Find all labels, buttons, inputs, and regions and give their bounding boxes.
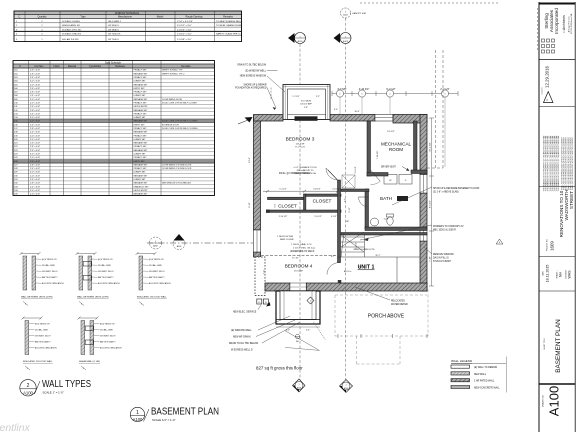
svg-text:103 1/2" AFF: 103 1/2" AFF [300,103,312,106]
svg-text:12.29.2016: 12.29.2016 [545,65,550,88]
svg-text:Remarks: Remarks [181,65,191,68]
svg-text:2: 2 [27,383,30,389]
svg-text:SOLID CORE 1 HR W/ SELF CLOSIN: SOLID CORE 1 HR W/ SELF CLOSING [162,128,198,130]
stair right stringer [364,233,366,258]
svg-text:DRAIN TO DL/TBC BELOW: DRAIN TO DL/TBC BELOW [237,63,266,66]
svg-text:DOUBLE 2 HA. NG: DOUBLE 2 HA. NG [62,33,81,36]
well ladder marks [283,291,285,320]
svg-text:WATER METER: WATER METER [391,303,408,306]
svg-text:Door Schedule: Door Schedule [105,61,121,64]
bath door swing [359,197,369,207]
wall detail 1 [20,252,65,306]
svg-text:(E) 4" BRICK OR: (E) 4" BRICK OR [149,259,164,261]
svg-text:rentlinx: rentlinx [0,422,31,432]
svg-text:DUMMY SET: DUMMY SET [134,95,147,97]
svg-text:ACOUSTIC INSULATION: ACOUSTIC INSULATION [100,347,122,350]
svg-text:SEE WINDOW 1 IN SCHEDULE: SEE WINDOW 1 IN SCHEDULE [162,183,192,185]
svg-text:KEYED ENTRY: KEYED ENTRY [134,190,149,192]
bath dark niche [397,196,408,201]
svg-text:2'-8" x 6'-8": 2'-8" x 6'-8" [30,183,40,185]
svg-text:2'-6" x 6'-8": 2'-6" x 6'-8" [30,106,40,108]
svg-text:ACOUSTIC INSULATION: ACOUSTIC INSULATION [35,347,57,350]
svg-text:CLOSET: CLOSET [313,199,332,204]
deck edge dashed line over bedroom4 [261,255,337,257]
svg-text:5/8 GWB T. BLD F.: 5/8 GWB T. BLD F. [149,271,165,273]
svg-text:7 1/8 IN. CAVA. 2 CK: 7 1/8 IN. CAVA. 2 CK [291,243,312,246]
svg-text:BASEMENT PLAN: BASEMENT PLAN [151,407,219,418]
svg-text:FOUNDATION AS REQUIRED: FOUNDATION AS REQUIRED [235,87,267,90]
svg-text:W.: W. [389,180,392,182]
svg-text:PRIVACY SET: PRIVACY SET [134,145,148,148]
south wall west segment [265,283,290,291]
svg-text:3'-0" x 6'-8": 3'-0" x 6'-8" [30,81,40,83]
svg-text:2'-10 1/2": 2'-10 1/2" [279,216,288,218]
south wall east segment [306,283,427,291]
svg-text:Hardware: Hardware [115,65,126,68]
svg-text:3'-6 1/2": 3'-6 1/2" [355,166,357,174]
porch above dashed outline [335,290,428,365]
svg-text:DRYER VENT: DRYER VENT [381,167,396,169]
svg-text:3'-0" x 6'-8": 3'-0" x 6'-8" [30,99,40,101]
svg-text:10: 10 [265,302,267,304]
svg-text:UP: UP [346,221,350,223]
svg-text:BATTS IN CAVITY: BATTS IN CAVITY [100,341,116,344]
unit1 door swing [327,263,339,275]
svg-text:DAS IN FILL IS: DAS IN FILL IS [433,257,449,260]
svg-text:3'-0 1/2" x 3'-0": 3'-0 1/2" x 3'-0" [177,25,192,27]
svg-text:WALL TYPES: WALL TYPES [42,379,91,390]
svg-text:(3) 1'-6" x ABOVE SLAB): (3) 1'-6" x ABOVE SLAB) [433,191,459,194]
svg-text:5'-5 1/2": 5'-5 1/2" [314,216,322,218]
svg-text:ACOUSTIC INSULATION: ACOUSTIC INSULATION [42,282,64,285]
svg-text:PRIVACY SET: PRIVACY SET [134,167,148,170]
section marker top A [288,33,306,44]
svg-text:2'-6" x 6'-8": 2'-6" x 6'-8" [30,143,40,145]
section marker top B [334,33,352,44]
svg-text:2'-8" x 6'-8": 2'-8" x 6'-8" [30,128,40,130]
svg-text:Finish: Finish [53,66,60,68]
svg-text:THIS DRAWING IS THE PROPERTY O: THIS DRAWING IS THE PROPERTY OF THE ARCH… [557,135,560,192]
bath fixtures: toilet [387,217,393,225]
svg-text:5/8 GWB T. BLD F.: 5/8 GWB T. BLD F. [98,271,114,273]
svg-text:Remarks: Remarks [223,16,233,19]
svg-text:2'-4" x 6'-8": 2'-4" x 6'-8" [30,113,40,115]
svg-text:STREET: STREET [569,191,574,209]
svg-text:PRIVACY SET: PRIVACY SET [134,156,148,159]
svg-text:PASSAGE SET: PASSAGE SET [134,182,149,185]
svg-text:(E) WALL TO REMAIN: (E) WALL TO REMAIN [474,366,497,369]
svg-text:10'-1 3/4": 10'-1 3/4" [430,142,432,151]
svg-text:Material: Material [68,65,77,68]
svg-text:REMOVE WINDOW: REMOVE WINDOW [433,254,455,256]
closet door jamb [266,210,270,213]
svg-text:SOLID CORE 1 HR W/ SELF CLOSER: SOLID CORE 1 HR W/ SELF CLOSER [162,103,197,105]
wall legend [451,357,506,393]
svg-text:Unit Size: Unit Size [34,65,44,68]
south egress well [276,291,320,324]
leaders from well to unit tags [314,322,326,340]
svg-text:BATH: BATH [380,196,392,201]
mech room door swing [371,170,381,181]
svg-text:UNDERSIDE OF DECK: UNDERSIDE OF DECK [290,251,315,253]
section marker bottom B [340,380,353,393]
svg-text:PRIVACY SET: PRIVACY SET [134,76,148,79]
svg-text:617.555.0100 Boston MA: 617.555.0100 Boston MA [570,13,573,34]
svg-text:BEDROOM 4: BEDROOM 4 [285,264,313,269]
svg-text:revisions: revisions [542,87,544,94]
svg-text:BASEMENT PLAN: BASEMENT PLAN [555,319,562,373]
east wall window 1 [420,175,427,194]
bay egress window (dark) [295,116,318,121]
closet divider wall [304,194,306,212]
svg-text:VERIFY IN FIELD TYP.: VERIFY IN FIELD TYP. [162,70,183,72]
svg-text:6'-11": 6'-11" [249,202,251,208]
svg-text:14'-1/2": 14'-1/2" [387,131,395,133]
svg-text:1609: 1609 [550,241,555,251]
svg-text:WINDOW SCHEDULE: WINDOW SCHEDULE [115,12,140,15]
svg-text:C.: C. [18,16,21,19]
svg-text:(E) 4" BRICK OR: (E) 4" BRICK OR [100,324,115,326]
svg-text:2X4 BA...GWB: 2X4 BA...GWB [42,264,55,267]
svg-text:DUMMY SET: DUMMY SET [134,117,147,119]
svg-text:NEW COVER: NEW COVER [280,239,294,241]
svg-text:SHEET TITLE: SHEET TITLE [544,338,546,350]
svg-text:A103: A103 [344,387,348,390]
svg-text:2'-4" x 6'-8": 2'-4" x 6'-8" [30,95,40,97]
deck above dashed outline [360,2,500,4]
svg-text:5x1P: 5x1P [384,219,389,221]
svg-text:(E) WINDOW WELL: (E) WINDOW WELL [231,330,252,332]
svg-text:157.4 SF: 157.4 SF [294,271,304,273]
right closet top wall [305,194,341,196]
wall types title [20,379,91,396]
svg-text:ROOM: ROOM [389,147,403,152]
svg-text:8'-5 1/2": 8'-5 1/2" [430,200,432,208]
chimney infill X [342,175,355,188]
svg-text:117.3 SF: 117.3 SF [296,144,305,146]
svg-text:DATE: DATE [542,270,545,275]
svg-text:□ Architects: □ Architects [562,15,566,33]
svg-text:ACOUSTIC INSULATION: ACOUSTIC INSULATION [149,282,171,285]
svg-text:(E) WINDOW WELL: (E) WINDOW WELL [245,70,266,72]
svg-text:INFILL @ FORMER CHIMNEY: INFILL @ FORMER CHIMNEY [279,173,311,175]
svg-text:2'-8" x 6'-8": 2'-8" x 6'-8" [30,164,40,166]
svg-text:VERIFY IN FIELD TYP. 2: VERIFY IN FIELD TYP. 2 [162,73,185,75]
bath north wall [341,189,369,192]
window tag circles [336,90,343,97]
svg-text:DUMMY SET: DUMMY SET [134,81,147,83]
svg-text:2'-0": 2'-0" [360,265,362,269]
top dimension line [332,93,458,95]
svg-text:A200: A200 [153,245,157,248]
svg-text:PASSAGE SET: PASSAGE SET [134,72,149,75]
svg-text:Incorporated: Incorporated [554,8,559,34]
bath west wall [365,189,369,229]
svg-text:2'-4" x 6'-8": 2'-4" x 6'-8" [30,77,40,79]
svg-text:PASSAGE SET: PASSAGE SET [134,163,149,166]
svg-text:DEADBOLT SET: DEADBOLT SET [134,185,150,188]
unit1 hall line [338,256,421,258]
west wall window [254,230,261,252]
svg-text:2'-8" x 6'-8": 2'-8" x 6'-8" [30,73,40,75]
svg-text:INSULATED 2X6 STUD WALL: INSULATED 2X6 STUD WALL [137,296,167,299]
right dimension chain [431,118,433,286]
svg-text:SHORE UP & REPAIR: SHORE UP & REPAIR [243,83,266,86]
svg-text:W EGRESS WELL D: W EGRESS WELL D [231,350,253,352]
svg-text:5/8 GWB T. BLD F.: 5/8 GWB T. BLD F. [42,271,58,273]
svg-text:DOUBLE 2 HUNG: DOUBLE 2 HUNG [62,21,80,23]
svg-text:PROJECT NO.: PROJECT NO. [547,238,549,251]
svg-text:WINDERS TO COMFORY XV: WINDERS TO COMFORY XV [433,226,464,228]
canopy tag dashed circle [341,8,351,18]
floor plan group [147,3,538,393]
laundry dryer box [399,175,412,185]
svg-text:2X4 BA...GWB: 2X4 BA...GWB [149,264,162,267]
svg-text:2'-4" x 6'-8": 2'-4" x 6'-8" [30,132,40,134]
svg-text:20'-7": 20'-7" [375,255,380,257]
svg-text:334 x ABOVE TO: 334 x ABOVE TO [297,169,314,172]
svg-text:NEW WALL: NEW WALL [474,373,487,376]
svg-text:2'-0" x 6'-8": 2'-0" x 6'-8" [30,139,40,141]
svg-text:2'-4" x 6'-8": 2'-4" x 6'-8" [30,150,40,152]
svg-text:A100: A100 [133,417,143,422]
svg-text:1: 1 [310,301,311,303]
svg-text:ENTRY SET: ENTRY SET [134,124,146,126]
arrow into west wall [245,117,253,123]
svg-text:Manufacturer: Manufacturer [118,16,132,19]
svg-text:1'-7 1/2": 1'-7 1/2" [292,96,300,98]
svg-text:2X4 BA...GWB: 2X4 BA...GWB [98,264,111,267]
north bay window well [283,85,330,120]
svg-text:5/8 GWB T. BLD F.: 5/8 GWB T. BLD F. [35,336,51,338]
svg-text:PASSAGE SET: PASSAGE SET [134,83,149,86]
central vertical wall [338,180,341,263]
well dims [276,326,320,328]
svg-text:PASSAGE SET: PASSAGE SET [134,193,149,196]
svg-text:WALL BETWEEN UNITS (2 HR): WALL BETWEEN UNITS (2 HR) [21,296,53,299]
wall detail 2 [76,252,121,306]
svg-text:(E) 4" BRICK OR: (E) 4" BRICK OR [42,259,57,261]
svg-text:PORCH ABOVE: PORCH ABOVE [368,314,405,320]
svg-text:BATTS IN CAVITY: BATTS IN CAVITY [98,276,114,279]
svg-text:EXTERIOR DOOR: EXTERIOR DOOR [162,124,179,126]
laundry washer box [384,175,397,185]
svg-text:13'-6": 13'-6" [249,157,251,163]
svg-text:ENTRY SET: ENTRY SET [134,161,146,163]
slope triangle [496,239,503,244]
svg-text:A100: A100 [23,391,33,396]
svg-text:BATTS IN CAVITY: BATTS IN CAVITY [42,276,58,279]
svg-text:SHOR UP & REFRAME BASEMENT FLO: SHOR UP & REFRAME BASEMENT FLOOR [433,187,480,190]
svg-text:2'-4" x 6'-8": 2'-4" x 6'-8" [30,186,40,188]
svg-text:PASSAGE SET: PASSAGE SET [134,98,149,101]
svg-text:2'-8" x 6'-8": 2'-8" x 6'-8" [30,146,40,148]
closet south wall [270,210,342,212]
svg-text:JW 3030 S: JW 3030 S [108,25,119,27]
svg-text:PRIVACY SET: PRIVACY SET [134,91,148,94]
svg-text:16'-8": 16'-8" [354,111,359,113]
svg-text:INSULATED 2X4 STUD WALL: INSULATED 2X4 STUD WALL [23,360,53,363]
bath south wall [365,227,427,231]
svg-text:1 DECK W/ DIM: 1 DECK W/ DIM [277,236,293,238]
svg-text:5'-1 1/2": 5'-1 1/2" [279,188,287,190]
svg-text:RELOCATED: RELOCATED [391,300,405,303]
svg-text:STUCCO FINISH: STUCCO FINISH [433,261,451,263]
svg-text:2'-6" x 6'-8": 2'-6" x 6'-8" [30,161,40,163]
svg-text:2X4 BA...GWB: 2X4 BA...GWB [35,329,48,332]
svg-text:4'-1/2": 4'-1/2" [331,216,337,218]
svg-text:BATTS IN CAVITY: BATTS IN CAVITY [35,341,51,344]
south wall door opening [290,283,306,291]
svg-text:3'-4": 3'-4" [334,109,338,111]
svg-text:2'-0" x 6'-8": 2'-0" x 6'-8" [30,157,40,159]
svg-text:PRIVACY SET: PRIVACY SET [134,69,148,72]
svg-text:NEW WF DRAIN: NEW WF DRAIN [233,336,251,339]
svg-text:(E) 4" BRICK OR: (E) 4" BRICK OR [35,324,50,326]
west foundation wall [254,116,261,230]
svg-text:PRIVACY SET: PRIVACY SET [134,134,148,137]
svg-text:WALL BETWEEN UNITS (2 HR): WALL BETWEEN UNITS (2 HR) [77,296,109,299]
wall bedroom3 / left closet top [268,197,306,199]
svg-text:ACOUSTIC INSULATION: ACOUSTIC INSULATION [98,282,120,285]
svg-text:WALL LEGEND: WALL LEGEND [451,359,473,363]
witness lines from dim to wall [339,97,341,114]
svg-text:5'-8 1/2": 5'-8 1/2" [313,188,321,190]
area drain [295,334,299,338]
svg-text:3'-4": 3'-4" [306,330,310,332]
svg-text:WAS: WAS [568,270,572,279]
svg-text:2 HR RATED WALL: 2 HR RATED WALL [474,380,495,383]
svg-text:3'-0" x 6'-8": 3'-0" x 6'-8" [30,154,40,156]
svg-text:JW 7040 S: JW 7040 S [108,39,119,41]
stair winders [341,232,364,257]
svg-text:DOUBLE 4 HG. NO: DOUBLE 4 HG. NO [62,29,82,31]
svg-text:2'-0" x 6'-8": 2'-0" x 6'-8" [30,194,40,196]
svg-text:PASSAGE SET: PASSAGE SET [134,131,149,134]
svg-text:2'-4" x 6'-8": 2'-4" x 6'-8" [30,168,40,170]
svg-text:(E) 4" BRICK OR: (E) 4" BRICK OR [98,259,113,261]
east foundation wall [420,115,427,175]
svg-text:3'-0" x 6'-8": 3'-0" x 6'-8" [30,117,40,119]
svg-text:JW 2846 S: JW 2846 S [108,29,119,31]
svg-text:17'-10": 17'-10" [292,258,299,260]
mech room west wall [367,121,371,176]
svg-text:SINGLE AWN. NO: SINGLE AWN. NO [62,24,80,27]
svg-text:2'-8": 2'-8" [304,107,308,109]
svg-text:Rough Opening: Rough Opening [186,16,203,19]
svg-text:SAFETY GLASS PER CODE: SAFETY GLASS PER CODE [216,33,245,36]
section line A [299,44,301,84]
title block [539,2,576,432]
svg-text:2X4 BA...GWB: 2X4 BA...GWB [100,329,113,332]
svg-text:1/2 HR RATED 1 W SIDE DOOR: 1/2 HR RATED 1 W SIDE DOOR [162,167,192,170]
svg-text:NEW ELEC. SERVICE: NEW ELEC. SERVICE [233,312,257,314]
north wall center segment [330,115,375,122]
svg-text:MECHANICAL: MECHANICAL [381,142,412,147]
door tag by well [307,297,314,304]
svg-text:DRAWING NO.: DRAWING NO. [542,394,545,407]
svg-text:DUMMY SET: DUMMY SET [134,179,147,181]
elevation sight line [147,242,253,244]
hall south wall / unit1 north [341,233,427,236]
bedroom3 door swing [326,168,338,180]
svg-text:DRAIN TO DLI TBC BELOW: DRAIN TO DLI TBC BELOW [229,342,259,345]
svg-text:5/8 GWB T. BLD F.: 5/8 GWB T. BLD F. [100,336,116,338]
door schedule table [13,61,215,196]
svg-text:2'-0" x 6'-8": 2'-0" x 6'-8" [30,84,40,86]
svg-text:7'-10 1/2": 7'-10 1/2" [377,150,379,159]
svg-text:2'-2": 2'-2" [316,96,320,98]
svg-text:2'-6" x 6'-8": 2'-6" x 6'-8" [30,124,40,126]
north wall west segment [254,115,284,122]
svg-text:SCALE 1/4" = 1'-0": SCALE 1/4" = 1'-0" [152,418,176,422]
svg-text:W/N/COLUMN 6 FTS: W/N/COLUMN 6 FTS [354,249,375,251]
svg-text:2'-0" x 6'-8": 2'-0" x 6'-8" [30,175,40,177]
north wall window opening [375,115,393,122]
svg-text:2'-6" x 6'-8": 2'-6" x 6'-8" [30,70,40,72]
svg-text:CANOPY SIM: CANOPY SIM [352,12,366,15]
svg-text:10: 10 [258,302,260,304]
svg-text:2'-8" x 6'-8": 2'-8" x 6'-8" [30,92,40,94]
north wall east segment (mech room) [393,115,427,124]
svg-text:PASSAGE SET: PASSAGE SET [134,120,149,123]
svg-text:3'-0": 3'-0" [286,330,290,332]
svg-text:PASSAGE SET: PASSAGE SET [134,109,149,112]
svg-text:Model: Model [157,16,164,19]
svg-text:SOLID CORE 1 HR W/ SELF CLOSIN: SOLID CORE 1 HR W/ SELF CLOSING [162,121,198,123]
svg-text:SGL AW 3-R WD: SGL AW 3-R WD [62,38,79,41]
svg-text:PRIVACY SET: PRIVACY SET [134,112,148,115]
east wall window 2 [420,230,427,241]
svg-text:+/- 8" SURFACE TO DK: +/- 8" SURFACE TO DK [293,166,317,169]
svg-text:2'-8" x 6'-8": 2'-8" x 6'-8" [30,110,40,112]
mech room east wall [414,121,418,173]
svg-text:NBC 1009.3 & 1009.R: NBC 1009.3 & 1009.R [433,230,456,232]
svg-text:2'-6" x 6'-8": 2'-6" x 6'-8" [30,88,40,90]
svg-text:7'-3": 7'-3" [264,270,266,275]
svg-text:1: 1 [345,385,346,387]
svg-text:ADJ 1 hr: ADJ 1 hr [344,270,352,273]
svg-text:JELD-WEN 1: JELD-WEN 1 [108,21,122,23]
svg-text:3'-0" x 6'-8": 3'-0" x 6'-8" [30,135,40,137]
svg-text:PRIVACY SET: PRIVACY SET [134,102,148,105]
svg-text:SCALE 1" = 1'-0": SCALE 1" = 1'-0" [43,390,64,394]
svg-text:PRIVACY SET: PRIVACY SET [134,127,148,130]
svg-text:PASSAGE SET: PASSAGE SET [134,142,149,145]
svg-text:2'-8 1/4" x 4'-6": 2'-8 1/4" x 4'-6" [177,29,192,31]
svg-text:SHEAR WALL (1 HR): SHEAR WALL (1 HR) [79,360,100,363]
svg-text:2'-0 5/8" x 3'-0": 2'-0 5/8" x 3'-0" [177,39,192,41]
small squares (elec panels) [257,299,262,304]
svg-text:7'-10": 7'-10" [430,256,432,262]
svg-text:2'-6" x 6'-8": 2'-6" x 6'-8" [30,179,40,181]
window schedule table [14,11,242,42]
svg-text:2'-10": 2'-10" [349,207,351,212]
wall detail 4 [22,317,58,371]
svg-text:JW 7030 DS: JW 7030 DS [108,34,121,36]
bath fixtures: sink [371,218,379,226]
svg-text:2'-10" x 4'-5 1/4": 2'-10" x 4'-5 1/4" [177,21,193,23]
svg-text:KEYED ENTRY: KEYED ENTRY [134,106,149,108]
svg-text:827 sq ft gross this floor: 827 sq ft gross this floor [256,366,303,371]
svg-text:A103: A103 [343,14,347,17]
mech room south wall [367,173,388,177]
svg-text:ENTRY SET: ENTRY SET [134,88,146,90]
new concrete wall SW corner (white, dashed) [255,257,265,296]
svg-text:2 1/2 X 4 MIL. 3/4 max: 2 1/2 X 4 MIL. 3/4 max [293,248,316,250]
svg-text:3'-0" x 6'-8": 3'-0" x 6'-8" [30,190,40,192]
svg-text:2'-0" x 6'-8": 2'-0" x 6'-8" [30,103,40,105]
